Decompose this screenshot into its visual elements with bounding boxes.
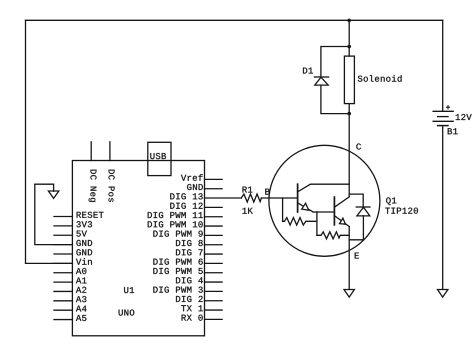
transistor Q1b emitter lead — [334, 216, 349, 227]
label 12V — [456, 114, 472, 120]
wire +12V top rail — [26, 19, 443, 21]
USB box — [148, 142, 171, 175]
label Vin — [76, 258, 92, 265]
label GNDr — [187, 184, 203, 190]
wire solenoid branch from rail — [348, 20, 350, 56]
pins right stubs — [205, 179, 223, 319]
label Vref — [181, 174, 203, 181]
label B1 — [448, 128, 458, 134]
transistor Q1b base bar — [333, 197, 335, 225]
label DIG 4 — [176, 277, 203, 283]
label U1 — [124, 287, 134, 293]
resistor R internal a — [283, 198, 317, 225]
label TX 1 — [181, 305, 203, 311]
label GND2 — [76, 249, 92, 255]
label D1 — [303, 68, 313, 74]
label DIG PWM 11 — [148, 212, 203, 218]
label DIG PWM 6 — [153, 259, 202, 265]
label DIG PWM 9 — [153, 231, 202, 237]
label TIP120 — [385, 208, 418, 214]
label 5V — [76, 231, 86, 237]
label A4 — [76, 306, 87, 312]
label A1 — [76, 277, 87, 283]
wire DIG 13 to R1 — [205, 197, 242, 199]
pin DC Pos stub — [109, 142, 111, 161]
label DIG PWM 3 — [153, 287, 202, 293]
diode D1 — [314, 77, 328, 85]
label E — [355, 253, 359, 259]
resistor R internal b — [317, 232, 349, 239]
label DIG 8 — [176, 240, 203, 246]
wire solenoid bottom to collector — [348, 104, 350, 197]
wire battery negative to ground — [442, 126, 444, 290]
label 3V3 — [76, 221, 92, 227]
wire emitter to ground — [348, 227, 350, 290]
transistor Q1b collector lead — [334, 197, 349, 207]
label B — [265, 189, 269, 195]
label C — [356, 143, 361, 149]
wire Vin from +12V rail — [26, 20, 73, 263]
ground arduino — [48, 191, 58, 198]
pins left stubs — [54, 217, 72, 320]
label plus — [446, 105, 450, 109]
wire R1 to base — [261, 197, 297, 199]
label UNO — [119, 309, 135, 315]
pin DC Neg stub — [90, 142, 92, 161]
label DIG 7 — [176, 249, 203, 255]
solenoid body — [344, 56, 354, 104]
transistor Q1b base wire — [317, 211, 335, 213]
node solenoid bottom junction — [347, 112, 351, 116]
ground emitter — [344, 290, 354, 298]
transistor Q1 circle — [269, 145, 380, 256]
label USB — [150, 153, 166, 159]
label DIG PWM 5 — [153, 268, 202, 274]
Arduino U1 body — [72, 161, 204, 336]
wire D1 bottom branch — [321, 85, 349, 114]
node rail junction — [347, 19, 351, 23]
label DIG PWM 10 — [148, 221, 203, 227]
label Q1 — [386, 197, 396, 205]
label RESET — [77, 212, 104, 218]
ground battery — [438, 290, 448, 298]
wire GND to ground symbol — [35, 184, 73, 244]
wire Q1a emitter to Q1b base node — [316, 212, 318, 235]
transistor Q1a emitter lead — [298, 203, 317, 212]
label Solenoid — [358, 75, 402, 82]
label DC Pos — [109, 170, 115, 202]
resistor R1 — [241, 194, 261, 202]
transistor Q1a collector lead — [298, 184, 350, 192]
label R1 — [243, 187, 253, 193]
label A0 — [76, 268, 86, 274]
transistor Q1a base bar — [297, 184, 299, 212]
label DC Neg — [89, 170, 97, 202]
label 1K — [242, 208, 252, 214]
label GND1 — [76, 240, 92, 246]
label A5 — [76, 315, 86, 321]
label DIG 2 — [176, 296, 203, 302]
wire D1 top branch — [321, 47, 349, 78]
label A3 — [76, 296, 86, 302]
node solenoid top junction — [347, 45, 351, 49]
label DIG 12 — [170, 203, 202, 209]
label A2 — [76, 287, 86, 293]
label DIG 13 — [170, 193, 202, 199]
label RX 0 — [182, 315, 203, 321]
battery B1 — [433, 111, 453, 125]
diode internal Q1 — [349, 194, 370, 240]
wire battery positive drop — [442, 20, 444, 111]
